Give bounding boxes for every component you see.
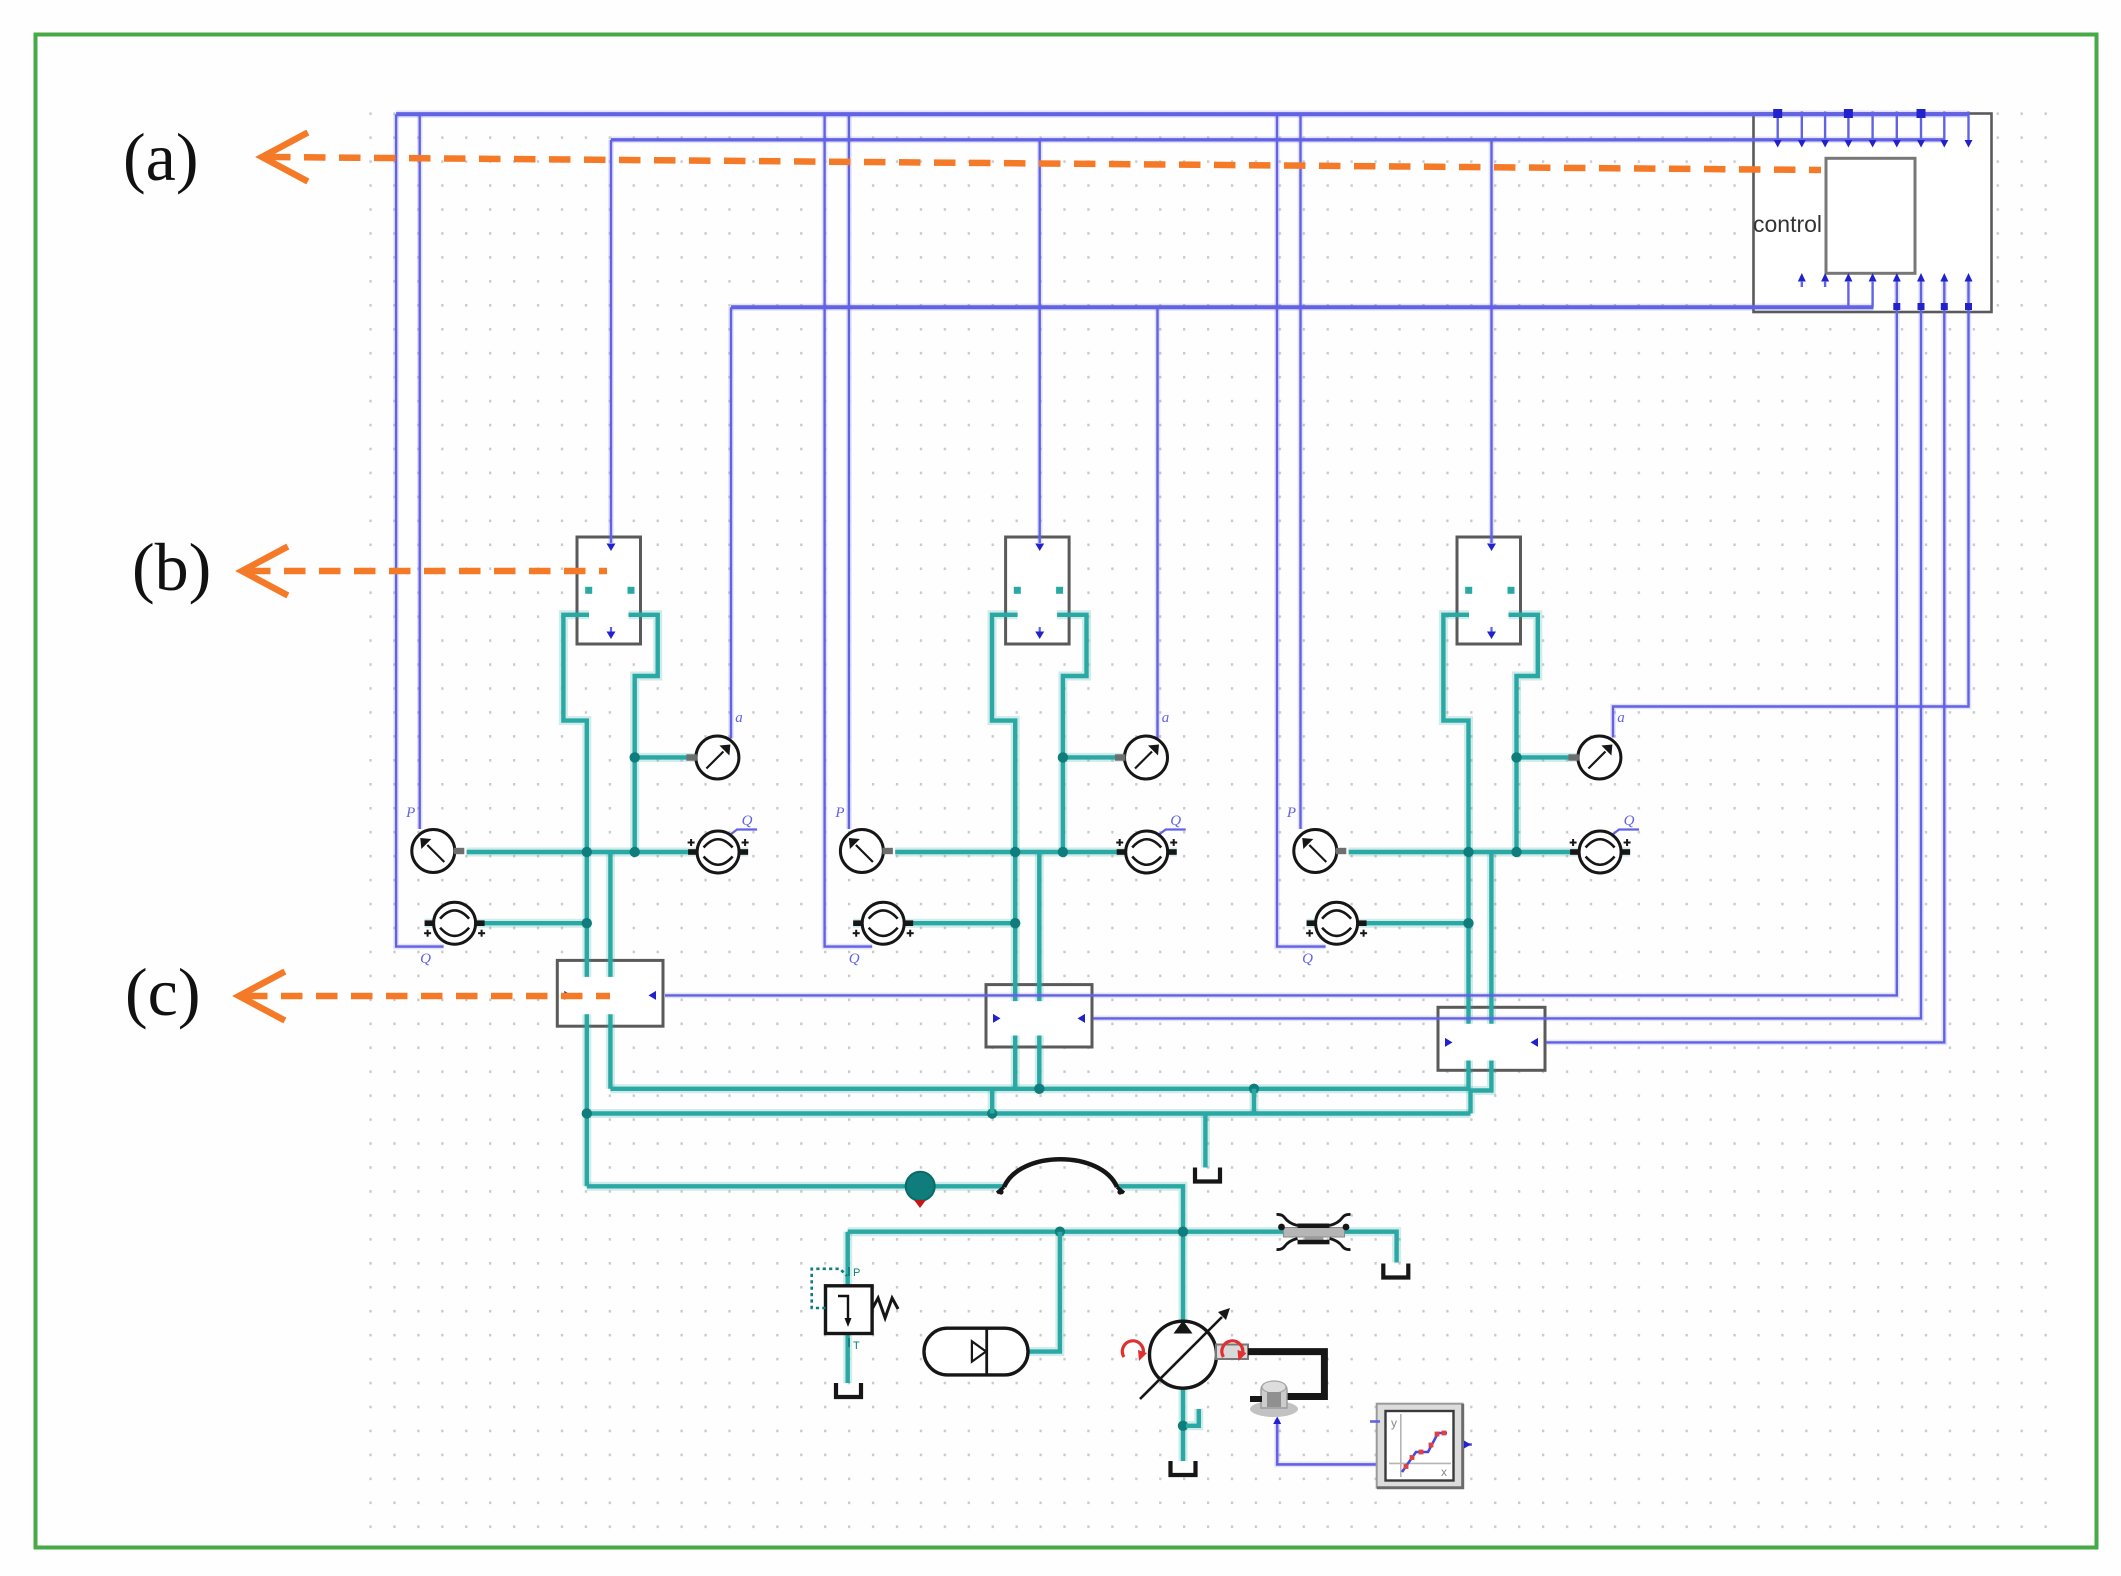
flow meter Q1 right: [688, 831, 749, 873]
pipe D1 right down: [606, 1014, 615, 1089]
pipe tank branch: [1201, 1114, 1210, 1168]
node gauge row left 2: [1010, 847, 1020, 857]
node flow-left tee 3: [1463, 918, 1473, 928]
svg-text:P: P: [853, 1267, 860, 1279]
label P S3: [1286, 805, 1296, 821]
annotation arrow (c): [239, 973, 610, 1019]
pipe pump to tank: [1179, 1388, 1188, 1461]
pipe drop to D1: [606, 852, 615, 977]
pipe hose to pump corner: [1117, 1186, 1183, 1321]
wire gauge-a S1: [728, 307, 734, 738]
node supply-bus D2: [1034, 1084, 1044, 1094]
control input arrows (top): [1773, 109, 1972, 148]
pipe V2 left leg: [992, 615, 1018, 1001]
control block inner box: [1826, 158, 1915, 273]
wire flow-left Q S2: [825, 114, 873, 946]
tank T1 (return bus): [1195, 1168, 1220, 1182]
signal bus A: [396, 110, 1968, 117]
pipe gauge row 1: [467, 848, 697, 857]
pipe gauge row 3: [1349, 848, 1580, 857]
pipe V3 left leg: [1443, 615, 1469, 1024]
valve D1 internal arrows: [564, 991, 656, 1000]
pipe bus stub B: [1250, 1089, 1259, 1114]
label P S1: [405, 805, 415, 821]
pipe supply bus: [610, 1084, 1468, 1093]
pipe stub flow-right 1: [739, 848, 748, 857]
node return-bus left: [582, 1108, 592, 1118]
pump shaft coupling: [1216, 1345, 1248, 1360]
wire gauge-a S2: [1155, 307, 1161, 738]
pipe pressure rail: [848, 1232, 1397, 1263]
svg-text:Q: Q: [1170, 813, 1181, 829]
tank T2 (relief): [836, 1383, 861, 1397]
annotation arrow (a): [262, 134, 1821, 180]
svg-text:(c): (c): [125, 954, 200, 1030]
control block U-ctrl outer: [1754, 114, 1992, 313]
pipe stub flow-left 3: [1307, 919, 1316, 928]
svg-text:Q: Q: [420, 951, 431, 967]
directional valve (c) D2 body: [986, 985, 1092, 1047]
wire control to D1: [665, 281, 1897, 995]
pipe stub flow-right 2: [1168, 848, 1177, 857]
label Q left S2: [849, 951, 860, 967]
pipe gauge-a tee 1: [635, 753, 696, 762]
wire valve-b top S3: [1489, 140, 1495, 543]
node gauge row right 2: [1058, 847, 1068, 857]
servo valve (b) V1 body: [577, 537, 641, 644]
signal bus C: [731, 304, 1874, 311]
tank T3 (pump): [1171, 1461, 1196, 1475]
pipe drop to D2: [1035, 852, 1044, 1001]
pipe accumulator: [1028, 1232, 1060, 1352]
variable orifice OR1: [1277, 1214, 1351, 1249]
pipe stub flow-left 2: [853, 919, 862, 928]
relief valve RV1: [812, 1269, 898, 1334]
node supply-bus mid: [1249, 1084, 1259, 1094]
pipe gauge-a tee 2: [1063, 753, 1125, 762]
node gauge row left 1: [582, 847, 592, 857]
svg-text:Q: Q: [1624, 813, 1635, 829]
pipe stub flow-left 1: [425, 919, 434, 928]
label a S2: [1162, 710, 1170, 726]
XY scope SC1: [1370, 1404, 1472, 1488]
valve D2 internal arrows: [993, 1014, 1085, 1023]
wire valve-b top S2: [1037, 140, 1043, 543]
svg-text:P: P: [834, 805, 844, 821]
svg-text:Q: Q: [849, 951, 860, 967]
servo valve (b) V3 body: [1457, 537, 1521, 644]
pipe pump drain stub: [1186, 1409, 1199, 1426]
pipe V1 left leg: [563, 615, 589, 977]
svg-text:Q: Q: [1302, 951, 1313, 967]
svg-text:a: a: [735, 710, 743, 726]
pipe D1 left down: [582, 1014, 591, 1186]
hose arc: [997, 1159, 1124, 1194]
pipe bus stub A: [988, 1089, 997, 1114]
svg-text:x: x: [1441, 1465, 1447, 1479]
pressure gauge P2: [840, 830, 893, 873]
wire flow-left Q S1: [396, 114, 444, 946]
pipe D2 left down: [1011, 1036, 1020, 1089]
label Q left S1: [420, 951, 431, 967]
valve V1 internal marks: [585, 544, 634, 640]
svg-text:y: y: [1391, 1416, 1397, 1430]
wire gauge-P S1: [417, 114, 423, 829]
label a S1: [735, 710, 743, 726]
junction squares bus C: [1893, 303, 1972, 310]
valve D3 internal arrows: [1445, 1038, 1538, 1047]
pipe V1 right leg: [629, 615, 658, 852]
directional valve (c) D3 body: [1438, 1007, 1545, 1070]
pipe return bus: [587, 1109, 1471, 1118]
wire gauge-a S3: [1613, 281, 1969, 738]
node gauge-a tee 2: [1058, 752, 1068, 762]
accumulator AC1: [924, 1328, 1028, 1375]
directional valve (c) D1 body: [557, 960, 663, 1026]
wire Q-right hook S2: [1160, 830, 1186, 835]
node gauge-a tee 1: [630, 752, 640, 762]
flow meter Q2 right: [1116, 831, 1177, 873]
pressure gauge P1: [412, 830, 465, 873]
node rail accumulator: [1055, 1227, 1065, 1237]
dot grid: [362, 105, 2067, 1537]
pipe gauge-a tee 3: [1517, 753, 1578, 762]
annotation arrow (b): [242, 548, 607, 594]
control output arrows (bottom): [1798, 273, 1973, 307]
wire Q-right hook S3: [1613, 830, 1639, 835]
servo valve (b) V2 body: [1006, 537, 1070, 644]
label P S2: [834, 805, 844, 821]
node gauge row right 3: [1511, 847, 1521, 857]
pipe V3 right leg: [1509, 615, 1538, 852]
flow meter Q2 left: [853, 902, 914, 944]
valve V2 internal marks: [1014, 544, 1063, 640]
pressure gauge P3: [1294, 830, 1347, 873]
wire flow-left Q S3: [1277, 114, 1326, 946]
pipe check to hose: [934, 1182, 1004, 1191]
wire control to D2: [1093, 281, 1921, 1018]
wire valve-b top S1: [608, 140, 614, 543]
svg-text:(b): (b): [132, 529, 211, 605]
pressure gauge a1: [686, 736, 739, 779]
node gauge row left 3: [1463, 847, 1473, 857]
label Q right S2: [1170, 813, 1181, 829]
node gauge-a tee 3: [1511, 752, 1521, 762]
wire Q-right hook S1: [731, 830, 757, 835]
wire control to D3: [1546, 281, 1944, 1042]
pump rotation mark right: [1222, 1341, 1247, 1361]
node flow-left tee 1: [582, 918, 592, 928]
pipe D2 right down: [1035, 1036, 1044, 1089]
node flow-left tee 2: [1010, 918, 1020, 928]
svg-text:control: control: [1753, 211, 1822, 237]
pipe stub flow-right 3: [1621, 848, 1630, 857]
flow meter Q3 right: [1570, 831, 1631, 873]
svg-text:P: P: [1286, 805, 1296, 821]
flow meter Q3 left: [1306, 902, 1367, 944]
label (b): [132, 529, 211, 605]
label (c): [125, 954, 200, 1030]
label Q right S1: [742, 813, 753, 829]
pipe D3 right down: [1471, 1061, 1492, 1114]
shaft linkage: [1248, 1352, 1324, 1397]
svg-text:a: a: [1617, 710, 1625, 726]
svg-text:a: a: [1162, 710, 1170, 726]
label relief P: [849, 1267, 860, 1279]
node rail pump: [1178, 1227, 1188, 1237]
variable pump P1: [1140, 1308, 1230, 1399]
pipe D3 left down: [1464, 1061, 1473, 1089]
pump rotation mark left: [1122, 1341, 1147, 1361]
svg-text:(a): (a): [123, 119, 198, 195]
pipe flow-left row 1: [476, 919, 589, 928]
tank T4 (orifice): [1383, 1264, 1408, 1278]
wire gauge-P S3: [1298, 114, 1304, 829]
label Q left S3: [1302, 951, 1313, 967]
wire motor to scope: [1273, 1417, 1376, 1465]
flow meter Q1 left: [424, 902, 485, 944]
check valve ball: [906, 1172, 935, 1208]
wire gauge-P S2: [846, 114, 852, 829]
svg-text:P: P: [405, 805, 415, 821]
svg-text:Q: Q: [742, 813, 753, 829]
node return-bus stub1: [987, 1108, 997, 1118]
pipe relief feed: [843, 1232, 852, 1287]
pressure gauge a3: [1568, 736, 1621, 779]
pipe V2 right leg: [1057, 615, 1086, 852]
pipe flow-left row 3: [1358, 919, 1471, 928]
signal bus B: [611, 137, 1944, 144]
prime mover M1: [1250, 1381, 1298, 1417]
pipe gauge row 2: [895, 848, 1125, 857]
node pump drain: [1178, 1421, 1188, 1431]
pressure gauge a2: [1115, 736, 1168, 779]
label Q right S3: [1624, 813, 1635, 829]
svg-text:T: T: [853, 1340, 860, 1352]
label (a): [123, 119, 198, 195]
pipe flow-left row 2: [904, 919, 1017, 928]
pipe relief to tank: [843, 1333, 852, 1383]
control block label: [1753, 211, 1822, 237]
pipe to check valve: [587, 1182, 906, 1191]
label relief T: [849, 1338, 860, 1352]
valve V3 internal marks: [1465, 544, 1514, 640]
pipe drop to D3: [1487, 852, 1496, 1024]
node gauge row right 1: [630, 847, 640, 857]
label a S3: [1617, 710, 1625, 726]
